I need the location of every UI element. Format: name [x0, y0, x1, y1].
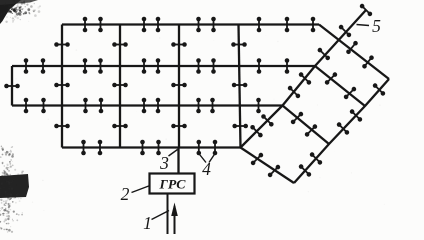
svg-text:1: 1: [143, 213, 152, 233]
svg-text:2: 2: [121, 184, 130, 204]
svg-text:5: 5: [372, 16, 381, 36]
svg-text:3: 3: [159, 153, 169, 173]
svg-text:ГРС: ГРС: [158, 177, 185, 192]
